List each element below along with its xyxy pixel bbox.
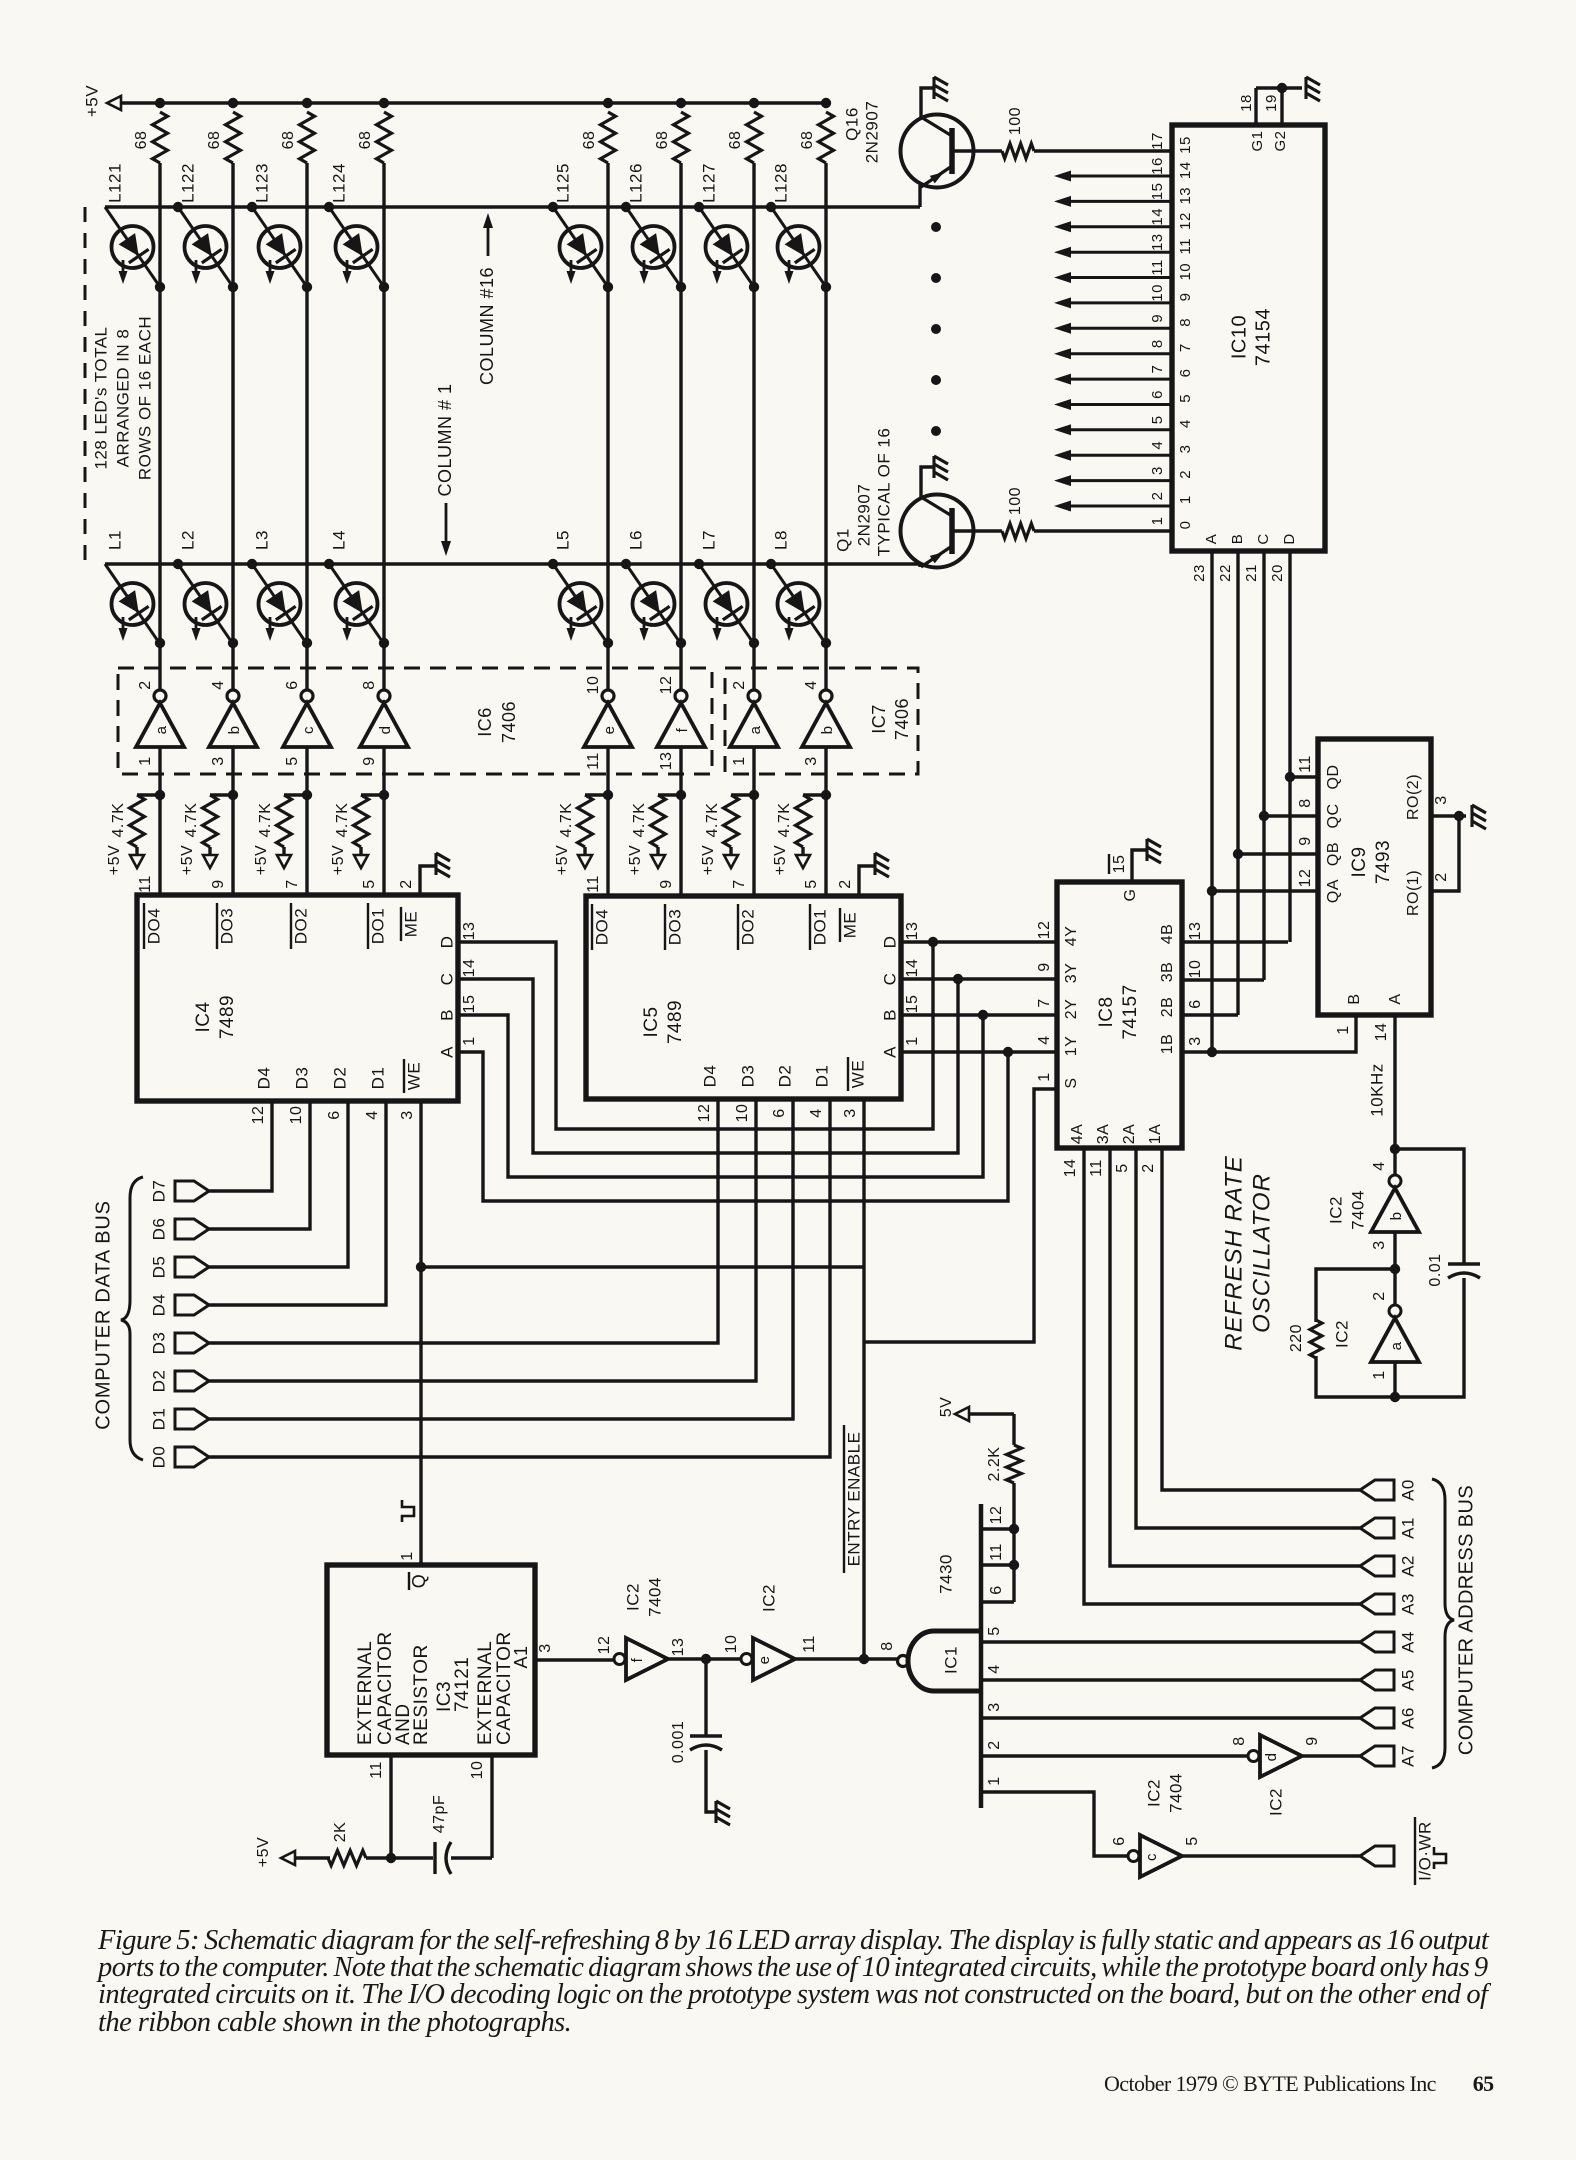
wire IC3 pin3 output <box>535 1658 614 1661</box>
svg-text:+5V: +5V <box>255 1837 272 1867</box>
svg-text:COLUMN # 1: COLUMN # 1 <box>435 383 455 496</box>
wire IC5 WE / ENTRY ENABLE <box>862 1099 865 1659</box>
svg-text:4: 4 <box>364 1110 381 1119</box>
svg-text:A1: A1 <box>1398 1517 1417 1539</box>
svg-text:C: C <box>1255 533 1272 544</box>
svg-text:23: 23 <box>1191 564 1208 582</box>
svg-text:4: 4 <box>808 1108 825 1117</box>
svg-text:13: 13 <box>1149 233 1166 251</box>
inverter f (IC2 7404) <box>614 1638 668 1680</box>
resistor 2.2K <box>1007 1445 1022 1483</box>
wire column 8 vertical <box>824 163 827 690</box>
svg-text:7404: 7404 <box>1166 1773 1185 1813</box>
svg-text:A: A <box>1387 993 1404 1004</box>
svg-text:12: 12 <box>596 1636 613 1655</box>
svg-text:1: 1 <box>731 756 748 765</box>
svg-text:12: 12 <box>1177 212 1194 230</box>
svg-text:6: 6 <box>1149 390 1166 399</box>
wire IC4 B to IC8 <box>458 1015 983 1177</box>
node bottom LED cathode <box>603 638 613 648</box>
svg-text:+5V: +5V <box>253 845 270 875</box>
svg-text:1Y: 1Y <box>1063 1036 1080 1057</box>
node 4.7K junction <box>155 790 165 800</box>
LED L1 <box>105 564 160 644</box>
svg-text:21: 21 <box>1243 564 1260 582</box>
output arrow pin 4 <box>1054 450 1172 461</box>
node bus junction col7 <box>749 98 759 108</box>
svg-text:D3: D3 <box>738 1065 757 1088</box>
inverter e (7406) <box>584 690 632 747</box>
output arrow pin 11 <box>1054 272 1172 283</box>
svg-text:L123: L123 <box>252 163 271 203</box>
output arrow pin 5 <box>1054 424 1172 435</box>
node junction <box>928 937 938 947</box>
svg-text:0.001: 0.001 <box>670 1721 687 1764</box>
svg-text:22: 22 <box>1217 564 1234 582</box>
svg-text:3: 3 <box>210 756 227 765</box>
node row1 attach <box>766 559 776 569</box>
svg-text:1: 1 <box>1149 517 1166 526</box>
svg-text:14: 14 <box>461 959 478 978</box>
node top LED cathode <box>676 282 686 292</box>
svg-text:+5V: +5V <box>627 845 644 875</box>
LED L125 <box>553 207 608 287</box>
output arrow pin 2 <box>1054 501 1172 512</box>
node row1 attach <box>173 559 183 569</box>
IC8 right stub 2B <box>1182 1013 1238 1016</box>
LED L2 <box>178 564 233 644</box>
svg-text:2: 2 <box>137 680 154 689</box>
IC1 7430 gate <box>898 1504 982 1808</box>
connector D5 <box>175 1257 209 1277</box>
LED L128 <box>771 207 826 287</box>
svg-text:7493: 7493 <box>1373 840 1394 884</box>
node top LED cathode <box>749 282 759 292</box>
svg-text:6: 6 <box>1177 369 1194 378</box>
connector A1 <box>1360 1518 1394 1538</box>
label COLUMN #16 with arrow <box>477 213 497 385</box>
transistor Q16 2N2907 <box>901 77 974 188</box>
svg-text:7: 7 <box>1149 365 1166 374</box>
node 4.7K junction <box>302 790 312 800</box>
svg-text:IC9: IC9 <box>1349 846 1370 877</box>
svg-text:6: 6 <box>1111 1836 1128 1845</box>
IC6 7406 dashed box <box>118 668 712 774</box>
node bottom LED cathode <box>379 638 389 648</box>
svg-text:3B: 3B <box>1159 962 1176 983</box>
node 0.001 junction <box>701 1654 711 1664</box>
svg-text:QA: QA <box>1325 879 1342 903</box>
node pin11 junction <box>1009 1560 1019 1570</box>
svg-text:B: B <box>880 1009 899 1021</box>
node 4.7K junction <box>228 790 238 800</box>
wire a input to bottom node <box>1393 1362 1396 1397</box>
supply +5V arrow <box>130 855 144 868</box>
svg-text:A3: A3 <box>1398 1593 1417 1615</box>
svg-text:0.01: 0.01 <box>1427 1253 1444 1286</box>
svg-text:8: 8 <box>1177 318 1194 327</box>
svg-text:220: 220 <box>1288 1324 1305 1352</box>
svg-text:13: 13 <box>658 752 675 771</box>
node top LED cathode <box>228 282 238 292</box>
footer <box>1104 2071 1494 2097</box>
wire WE interconnect <box>421 1265 864 1268</box>
svg-text:68: 68 <box>727 131 744 150</box>
LED L7 <box>699 564 754 644</box>
wire D1 <box>209 1099 793 1419</box>
svg-text:12: 12 <box>250 1106 267 1125</box>
svg-text:IC2: IC2 <box>1144 1779 1163 1807</box>
svg-text:IC2: IC2 <box>623 1583 642 1611</box>
wire Q16 base <box>952 149 1002 152</box>
wire osc feedback top <box>1395 1149 1464 1264</box>
node row1 attach <box>548 559 558 569</box>
svg-text:68: 68 <box>654 131 671 150</box>
svg-text:2: 2 <box>731 680 748 689</box>
connector D7 <box>175 1181 209 1201</box>
svg-text:15: 15 <box>1149 183 1166 201</box>
wire column 4 vertical <box>382 163 385 690</box>
svg-text:14: 14 <box>904 959 921 978</box>
wire inverter input <box>158 747 161 895</box>
svg-text:74154: 74154 <box>1252 308 1274 366</box>
svg-text:D1: D1 <box>368 1067 387 1090</box>
node A junction <box>1207 886 1217 896</box>
svg-text:7: 7 <box>1177 343 1194 352</box>
node top LED cathode <box>155 282 165 292</box>
caption <box>98 1925 1488 2034</box>
IC10 pin 20 (D) wire <box>1288 551 1291 942</box>
svg-text:10: 10 <box>723 1635 740 1654</box>
inverter a (7406) <box>730 690 778 747</box>
svg-text:4.7K: 4.7K <box>334 803 351 838</box>
output arrow pin 9 <box>1054 323 1172 334</box>
svg-text:D3: D3 <box>149 1332 168 1355</box>
svg-text:2A: 2A <box>1121 1124 1138 1145</box>
wire IC5 A to IC8 <box>901 1050 1057 1053</box>
resistor 4.7K <box>354 795 385 856</box>
wire column 7 vertical <box>752 163 755 690</box>
svg-text:4.7K: 4.7K <box>631 803 648 838</box>
inverter e (IC2 7404) <box>741 1638 795 1680</box>
dashed bracket line <box>84 207 87 563</box>
wire IC1 pin 1 <box>981 1792 1128 1856</box>
svg-text:ME: ME <box>401 911 420 938</box>
svg-text:+5V: +5V <box>554 845 571 875</box>
svg-text:DO1: DO1 <box>810 909 829 945</box>
wire IC1 pin 5 <box>981 1640 1360 1643</box>
svg-text:14: 14 <box>1177 161 1194 179</box>
resistor 4.7K <box>130 795 161 856</box>
svg-text:12: 12 <box>1297 869 1314 888</box>
IC8 right stub 1B to IC9 B <box>1182 1015 1356 1052</box>
resistor 4.7K <box>578 795 609 856</box>
connector A3 <box>1360 1594 1394 1614</box>
svg-text:2K: 2K <box>332 1822 349 1843</box>
svg-text:ME: ME <box>840 912 859 939</box>
wire D5 <box>209 1101 348 1267</box>
svg-text:7489: 7489 <box>217 995 238 1039</box>
svg-text:QC: QC <box>1325 804 1342 829</box>
svg-text:3: 3 <box>842 1108 859 1117</box>
svg-text:11: 11 <box>1088 1159 1105 1177</box>
svg-text:2: 2 <box>837 879 854 888</box>
svg-text:G1: G1 <box>1249 130 1266 151</box>
node QA/1B junction <box>1207 1047 1217 1057</box>
svg-text:e: e <box>756 1656 773 1665</box>
node bus junction col3 <box>302 98 312 108</box>
svg-text:9: 9 <box>658 879 675 888</box>
resistor 4.7K <box>724 795 755 856</box>
svg-text:D: D <box>1281 533 1298 544</box>
svg-text:D2: D2 <box>149 1370 168 1393</box>
svg-text:3: 3 <box>1371 1240 1388 1249</box>
LED L127 <box>699 207 754 287</box>
svg-text:10: 10 <box>1187 960 1204 979</box>
svg-text:A5: A5 <box>1398 1669 1417 1691</box>
node bus junction col5 <box>603 98 613 108</box>
node 10KHz junction <box>1390 1144 1400 1154</box>
resistor 68 ohm col3 <box>300 112 315 163</box>
supply +5V arrow <box>724 855 738 868</box>
svg-text:RO(2): RO(2) <box>1405 774 1422 820</box>
wire d to A7 <box>1302 1754 1360 1757</box>
svg-text:D4: D4 <box>149 1294 168 1317</box>
svg-text:D1: D1 <box>149 1408 168 1431</box>
resistor 4.7K <box>796 795 827 856</box>
svg-text:5: 5 <box>986 1626 1003 1635</box>
svg-text:D: D <box>880 936 899 949</box>
svg-text:9: 9 <box>361 756 378 765</box>
svg-text:5: 5 <box>361 879 378 888</box>
svg-text:3: 3 <box>1149 466 1166 475</box>
wire IC3 pin11 <box>389 1755 392 1858</box>
IC4 ME ground wire <box>420 866 436 895</box>
svg-text:3: 3 <box>537 1643 554 1652</box>
svg-text:11: 11 <box>585 752 602 770</box>
pulse symbol (Q) <box>402 1500 414 1522</box>
svg-text:+5V: +5V <box>82 85 101 117</box>
node bus junction col4 <box>379 98 389 108</box>
IC10 pin 23 (A) wire <box>1210 551 1213 1052</box>
svg-text:WE: WE <box>848 1060 867 1088</box>
svg-text:15: 15 <box>1111 855 1128 874</box>
wire IC5 D to IC8 <box>901 940 1057 943</box>
svg-text:A: A <box>1203 534 1220 545</box>
svg-text:5: 5 <box>803 879 820 888</box>
svg-text:3Y: 3Y <box>1063 963 1080 984</box>
output arrow pin 15 <box>1054 196 1172 207</box>
svg-text:11: 11 <box>1149 259 1166 276</box>
wire pullup to pins <box>1012 1483 1015 1602</box>
svg-text:8: 8 <box>1149 339 1166 348</box>
node row16 attach <box>247 202 257 212</box>
svg-text:7: 7 <box>284 879 301 888</box>
svg-text:L122: L122 <box>178 163 197 203</box>
svg-text:L125: L125 <box>553 163 572 203</box>
IC8 74157 box <box>1057 882 1182 1148</box>
resistor 2K <box>328 1851 366 1866</box>
connector D6 <box>175 1219 209 1239</box>
svg-text:ARRANGED IN 8: ARRANGED IN 8 <box>113 329 132 468</box>
svg-text:IC2: IC2 <box>759 1584 778 1612</box>
svg-text:1: 1 <box>1177 495 1194 504</box>
svg-text:4.7K: 4.7K <box>558 803 575 838</box>
svg-text:A6: A6 <box>1398 1707 1417 1729</box>
svg-text:D2: D2 <box>330 1067 349 1090</box>
svg-text:2: 2 <box>986 1740 1003 1749</box>
inverter d (7406) <box>360 690 408 747</box>
svg-text:10: 10 <box>1177 263 1194 281</box>
svg-text:e: e <box>601 726 618 735</box>
svg-text:1: 1 <box>461 1036 478 1045</box>
svg-text:TYPICAL OF 16: TYPICAL OF 16 <box>874 428 893 557</box>
wire IC8 S select <box>864 1089 1057 1342</box>
ground (IC8 G) <box>1147 839 1161 863</box>
svg-text:11: 11 <box>137 875 154 893</box>
svg-text:7: 7 <box>731 879 748 888</box>
svg-text:4: 4 <box>1371 1161 1388 1170</box>
wire IC3 pin10 <box>490 1755 493 1858</box>
node timing junction <box>386 1853 396 1863</box>
capacitor 0.001 <box>690 1734 722 1737</box>
ground (IC10 G1 G2) <box>1306 77 1320 101</box>
svg-text:5: 5 <box>1184 1836 1201 1845</box>
supply +5V (IC3) <box>255 1837 295 1867</box>
svg-text:74121: 74121 <box>452 1657 473 1712</box>
LED L4 <box>329 564 384 644</box>
output arrow pin 10 <box>1054 297 1172 308</box>
wire column 6 vertical <box>679 163 682 690</box>
wire D7 <box>209 1101 272 1191</box>
node bottom LED cathode <box>821 638 831 648</box>
svg-text:DO2: DO2 <box>738 909 757 945</box>
svg-text:7430: 7430 <box>936 1554 955 1594</box>
svg-text:L1: L1 <box>105 530 124 550</box>
wire cap to ground <box>706 1750 716 1812</box>
node bottom LED cathode <box>302 638 312 648</box>
output arrow pin 6 <box>1054 399 1172 410</box>
wire e to IC1 <box>795 1657 898 1660</box>
svg-text:2.2K: 2.2K <box>986 1447 1003 1482</box>
svg-text:4B: 4B <box>1159 924 1176 945</box>
svg-text:A4: A4 <box>1398 1631 1417 1653</box>
svg-text:L126: L126 <box>626 163 645 203</box>
wire inverter input <box>382 747 385 895</box>
svg-text:G2: G2 <box>1272 130 1289 151</box>
node bottom LED cathode <box>749 638 759 648</box>
IC7 7406 dashed box <box>725 668 918 774</box>
svg-text:IC8: IC8 <box>1096 996 1117 1027</box>
node 4.7K junction <box>749 790 759 800</box>
svg-text:a: a <box>153 725 170 734</box>
svg-text:13: 13 <box>1187 922 1204 941</box>
svg-text:DO4: DO4 <box>592 909 611 945</box>
connector A0 <box>1360 1480 1394 1500</box>
svg-text:IC5: IC5 <box>641 1006 662 1037</box>
resistor 68 ohm col1 <box>153 112 168 163</box>
svg-text:11: 11 <box>988 1543 1005 1561</box>
svg-text:4: 4 <box>210 680 227 689</box>
supply +5V arrow <box>277 855 291 868</box>
node osc bottom junction <box>1390 1392 1400 1402</box>
svg-text:5: 5 <box>284 756 301 765</box>
wire Q16 emitter to row line <box>918 185 921 207</box>
LED L123 <box>252 207 307 287</box>
node row1 attach <box>324 559 334 569</box>
svg-text:2: 2 <box>1433 872 1450 881</box>
supply +5V arrow <box>354 855 368 868</box>
svg-text:Q: Q <box>409 1574 429 1589</box>
wire inverter input <box>305 747 308 895</box>
svg-text:D5: D5 <box>149 1256 168 1279</box>
IC1 pin 12 stub <box>981 1527 1014 1530</box>
svg-text:47pF: 47pF <box>431 1795 448 1833</box>
svg-text:D4: D4 <box>700 1065 719 1088</box>
IC8 right stub 4B <box>1182 940 1288 943</box>
node row1 attach <box>247 559 257 569</box>
svg-text:L3: L3 <box>252 530 271 550</box>
svg-text:4A: 4A <box>1069 1124 1086 1145</box>
wire inverter input <box>824 747 827 895</box>
svg-text:4.7K: 4.7K <box>257 803 274 838</box>
node bus junction col6 <box>676 98 686 108</box>
svg-text:1: 1 <box>1036 1072 1053 1081</box>
svg-text:IC2: IC2 <box>1266 1788 1285 1816</box>
svg-text:3: 3 <box>986 1702 1003 1711</box>
inverter b (7406) <box>802 690 850 747</box>
svg-text:DO2: DO2 <box>291 908 310 944</box>
svg-text:a: a <box>747 725 764 734</box>
address bus brace <box>1432 1479 1454 1768</box>
svg-text:2: 2 <box>1371 1291 1388 1300</box>
svg-text:+5V: +5V <box>330 845 347 875</box>
connector D0 <box>175 1447 209 1467</box>
node C junction <box>1259 811 1269 821</box>
svg-text:IC2: IC2 <box>1332 1320 1351 1348</box>
wire RO(2) pin3 to ground <box>1431 811 1466 891</box>
IC3 74121 box <box>327 1565 535 1755</box>
node top LED cathode <box>379 282 389 292</box>
connector A6 <box>1360 1708 1394 1728</box>
wire inverter input <box>231 747 234 895</box>
wire column 2 vertical <box>231 163 234 690</box>
svg-text:ENTRY ENABLE: ENTRY ENABLE <box>844 1432 863 1567</box>
svg-text:1: 1 <box>1371 1370 1388 1379</box>
node 4.7K junction <box>821 790 831 800</box>
node top LED cathode <box>821 282 831 292</box>
svg-text:7406: 7406 <box>499 701 519 743</box>
svg-text:11: 11 <box>368 1761 385 1779</box>
svg-text:7: 7 <box>1036 998 1053 1007</box>
resistor 68 ohm col5 <box>601 112 616 163</box>
wire D0 <box>209 1099 830 1457</box>
connector A4 <box>1360 1632 1394 1652</box>
inverter b (7406) <box>209 690 257 747</box>
svg-text:17: 17 <box>1149 132 1166 150</box>
svg-text:f: f <box>674 727 691 732</box>
svg-text:WE: WE <box>404 1062 423 1090</box>
node B junction <box>1233 849 1243 859</box>
svg-text:10KHz: 10KHz <box>1367 1063 1386 1117</box>
svg-text:5: 5 <box>1149 415 1166 424</box>
capacitor 0.01 <box>1448 1262 1480 1265</box>
svg-text:9: 9 <box>1036 962 1053 971</box>
wire 100 to IC10 pin17 <box>1034 149 1172 152</box>
svg-text:2: 2 <box>1177 470 1194 479</box>
LED L5 <box>553 564 608 644</box>
connector A5 <box>1360 1670 1394 1690</box>
